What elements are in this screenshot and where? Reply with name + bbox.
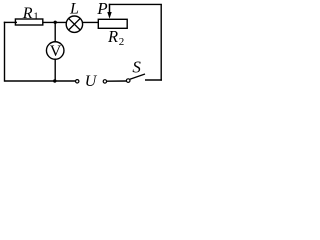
wire: slider top horizontal to right side: [109, 3, 162, 5]
wire: lamp to rheostat R2: [82, 21, 99, 23]
svg-text:S: S: [132, 58, 141, 77]
wire: bottom-left horizontal to left terminal: [5, 80, 76, 82]
rheostat slider arrow P: [107, 4, 111, 19]
wire: switch fixed side to bottom-right corner: [145, 79, 162, 81]
node: junction dot top (voltmeter tap): [54, 21, 57, 24]
svg-text:P: P: [96, 0, 107, 18]
lamp L: [66, 16, 82, 32]
terminal: right binding post of source U: [103, 80, 106, 83]
node: junction dot bottom: [53, 79, 56, 82]
wire: left vertical side: [4, 22, 6, 82]
voltmeter V branch wire top: [54, 22, 56, 42]
svg-text:1: 1: [33, 11, 39, 23]
rheostat R2 box: [98, 19, 127, 28]
wire: right terminal to switch pivot: [107, 80, 127, 82]
voltmeter V: [46, 42, 64, 60]
voltmeter V branch wire bottom: [54, 59, 56, 81]
svg-text:L: L: [69, 1, 79, 18]
resistor R1: [15, 19, 42, 25]
switch S pivot contact: [126, 79, 130, 83]
background: [0, 0, 166, 89]
switch S blade: [130, 74, 145, 79]
svg-text:R: R: [22, 5, 33, 22]
svg-text:R: R: [107, 27, 118, 46]
terminal: left binding post of source U: [76, 80, 79, 83]
svg-text:2: 2: [119, 36, 125, 48]
wire: top-left horizontal from corner to R1: [4, 21, 17, 23]
svg-text:U: U: [85, 73, 98, 89]
wire: right vertical side: [160, 4, 162, 80]
wire: R1 to lamp: [43, 21, 67, 23]
svg-text:V: V: [50, 43, 62, 60]
